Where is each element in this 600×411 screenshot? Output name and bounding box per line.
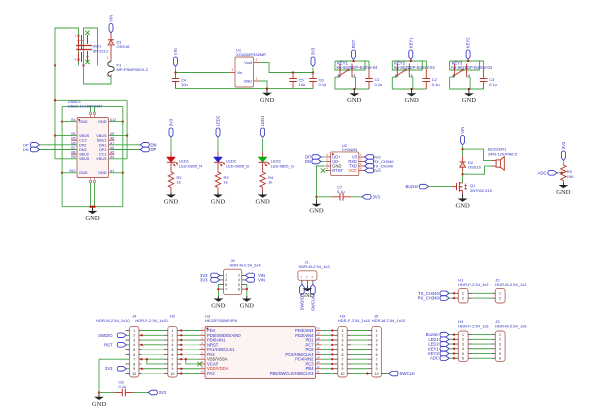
svg-text:7: 7 (342, 358, 344, 362)
pin 4 J4 (126, 344, 129, 346)
wire R2 to ground (170, 188, 172, 193)
capacitor C6 0.1u (312, 73, 314, 79)
wire pin B9 (55, 158, 77, 160)
svg-text:2: 2 (256, 58, 258, 62)
wire VBUS rail y100 (55, 99, 127, 101)
svg-text:VBUS: VBUS (96, 134, 107, 138)
pushbutton KEY2 K2-6629DP-B4SW-04 (396, 64, 398, 78)
svg-text:0.1u: 0.1u (489, 82, 497, 87)
junction dots H2 to U3 (180, 329, 182, 331)
pin 5 U2 left (325, 156, 331, 158)
svg-text:4: 4 (238, 278, 240, 282)
svg-text:HDR-M-2.54_2x4: HDR-M-2.54_2x4 (230, 263, 262, 268)
fuse F1 MP-PSMF050X-2 (108, 62, 114, 77)
junction row7 right a (185, 358, 187, 360)
svg-text:Vout: Vout (244, 61, 253, 65)
no-connect X on RTS# (321, 168, 325, 172)
pin 7 U3 (200, 358, 206, 360)
svg-text:GND: GND (404, 97, 419, 104)
svg-text:K2-6629DP-B4SW-04: K2-6629DP-B4SW-04 (337, 65, 379, 70)
junction C6 (312, 71, 314, 73)
junction buzzer top (461, 148, 463, 150)
svg-text:GND: GND (164, 199, 179, 206)
pin 8 J5 (368, 363, 372, 365)
wire H4 to J3 row 6 (472, 357, 491, 359)
svg-text:B1: B1 (71, 118, 75, 122)
pin 7 J5 (368, 358, 372, 360)
pin 8 H2 (164, 363, 168, 365)
svg-text:1: 1 (376, 329, 378, 333)
LED LED3 LED-0805_G (258, 157, 267, 162)
pin 4 U3 (200, 344, 206, 346)
pin 2 J5 (368, 334, 372, 336)
resistor R2 1k (168, 172, 173, 188)
pin 5 H4 (454, 352, 458, 354)
pin 6 H2 (164, 353, 168, 355)
header J2 HDR-M-2.54_1x2 (495, 288, 505, 303)
svg-text:1: 1 (462, 292, 464, 296)
pin 8 U2 right (359, 170, 365, 172)
svg-text:GND: GND (455, 203, 470, 210)
ground bottom left (98, 394, 100, 397)
diode D2 OSS16 (460, 161, 466, 163)
junction B1 (61, 120, 63, 122)
svg-text:A9: A9 (110, 132, 114, 136)
svg-text:VIN: VIN (173, 48, 178, 55)
port VIN J6 pin4 (245, 278, 254, 283)
junction dots U3 to H3 (331, 329, 333, 331)
wire top rail KEY2 (392, 60, 426, 62)
svg-text:1 2 3: 1 2 3 (75, 34, 81, 38)
svg-text:6: 6 (462, 357, 464, 361)
wire LED3 to R4 (262, 162, 264, 172)
MCU U3 HK32F030MF4P6 (205, 327, 316, 379)
svg-text:6: 6 (376, 353, 378, 357)
pin 9 H2 (164, 368, 168, 370)
pushbutton KEY1 K2-6629DP-B4SW-04 (339, 64, 341, 78)
pin 1 U1 (254, 80, 260, 82)
svg-text:HDR-M-2.54_1x3: HDR-M-2.54_1x3 (299, 264, 331, 269)
pin 3 U3 (200, 339, 206, 341)
svg-text:B9: B9 (71, 155, 75, 159)
capacitor C4 10u (175, 73, 177, 79)
svg-text:10: 10 (341, 372, 345, 376)
pin 3 J1 (312, 280, 314, 284)
svg-text:A7: A7 (110, 141, 114, 145)
svg-text:GND: GND (85, 215, 100, 222)
svg-text:5: 5 (376, 348, 378, 352)
wire bottom rail KEY3 (450, 77, 484, 89)
svg-text:4: 4 (342, 343, 344, 347)
wire H4 to J3 row 2 (472, 338, 491, 340)
svg-text:1k: 1k (224, 180, 228, 185)
pin 3 H4 (454, 343, 458, 345)
pin 6 H3 (334, 353, 338, 355)
wires H2 to U3 (181, 330, 199, 332)
pin 6 U3 (200, 353, 206, 355)
junction KEY1 top (352, 60, 354, 62)
pin 9 J4 (126, 368, 129, 370)
svg-text:B8: B8 (71, 151, 75, 155)
wire R5 to ground (562, 181, 564, 183)
junction J4 pin9 (141, 368, 143, 370)
capacitor C1 0.1u (368, 61, 370, 69)
pin 1 H4 (454, 334, 458, 336)
svg-text:1: 1 (499, 292, 501, 296)
svg-text:9: 9 (172, 367, 174, 371)
switch SW1 SP-2212 (78, 35, 80, 50)
svg-text:A6: A6 (110, 146, 114, 150)
svg-text:3: 3 (499, 342, 501, 346)
pin 3 U2 right (359, 165, 365, 167)
junction J6 right gnd (246, 288, 248, 290)
svg-text:0.1u: 0.1u (119, 384, 127, 389)
wire bottom rail y206.7 (62, 206, 123, 208)
wire R4 to ground (262, 188, 264, 193)
wire bottom rail U1 (176, 88, 314, 90)
svg-text:VBUS: VBUS (96, 157, 107, 161)
flag SWDIO at J1 (300, 284, 305, 294)
net flag KEY2 above KEY3 (466, 50, 470, 60)
svg-text:GND: GND (300, 292, 315, 299)
svg-text:8: 8 (172, 362, 174, 366)
wire switch to VBUS column (54, 66, 56, 159)
ground KEY2 (411, 89, 413, 93)
junction VBUS rail (54, 99, 56, 101)
capacitor C2 0.1u (425, 61, 427, 69)
svg-text:2: 2 (462, 338, 464, 342)
svg-text:GND: GND (255, 199, 270, 206)
pin 3 U1 (229, 72, 235, 74)
flag 3V3 at C7 (362, 195, 371, 200)
pin 7 H2 (164, 358, 168, 360)
junction C4 (174, 71, 176, 73)
svg-text:6: 6 (238, 283, 240, 287)
svg-text:4: 4 (172, 343, 174, 347)
svg-text:VCC: VCC (348, 168, 357, 173)
svg-text:1: 1 (256, 77, 258, 81)
flag 3V3 at C8 (148, 390, 157, 395)
svg-text:DP: DP (23, 143, 29, 147)
svg-text:A8: A8 (110, 137, 114, 141)
pin 2 H3 (334, 334, 338, 336)
junction A12 (122, 120, 124, 122)
svg-text:14: 14 (316, 355, 320, 359)
wire pin A7 DN (109, 144, 141, 146)
svg-text:5: 5 (225, 283, 227, 287)
svg-text:DN: DN (305, 159, 311, 164)
LED LED2 LED-0805_B (214, 157, 223, 162)
wire LED2 to R3 (217, 162, 219, 172)
svg-text:CC2: CC2 (79, 139, 87, 143)
pin 2 H4 (454, 338, 458, 340)
buzzer BUZZER1 SFN-1207PA6.5 (492, 160, 497, 162)
wire H4 to J3 row 5 (472, 352, 491, 354)
svg-text:2: 2 (133, 334, 135, 338)
pin 14 U3 (316, 358, 322, 360)
wire F1 to switch (84, 66, 112, 85)
svg-text:11: 11 (317, 370, 320, 374)
wire U2 GND down (317, 166, 325, 200)
wire KEY1 to KEY2 rail (410, 60, 412, 63)
flag RX_CH340 (365, 159, 374, 164)
pin 1 H1 (454, 292, 458, 294)
svg-text:KEY2: KEY2 (466, 37, 471, 48)
ground J1 (306, 286, 308, 288)
svg-text:6: 6 (327, 157, 329, 161)
wire SWCLK from J5 pin10 (381, 373, 385, 375)
svg-text:GND: GND (211, 199, 226, 206)
pin 5 J5 (368, 349, 372, 351)
junction J4 pin2 (141, 334, 143, 336)
port 3V3 J6 pin3 (211, 278, 220, 283)
svg-text:3: 3 (360, 162, 362, 166)
svg-text:HDR-F-2.54_1x10: HDR-F-2.54_1x10 (135, 318, 168, 323)
junction C8 node (98, 391, 100, 393)
svg-text:KEY1: KEY1 (408, 37, 413, 48)
pin 4 H2 (164, 344, 168, 346)
svg-text:10u: 10u (299, 82, 306, 87)
svg-text:LED-0805_R: LED-0805_R (179, 163, 202, 168)
svg-text:3: 3 (462, 342, 464, 346)
junction ADC (561, 172, 563, 174)
svg-text:8: 8 (238, 287, 240, 291)
svg-text:6: 6 (172, 353, 174, 357)
pin 2 H1 (454, 297, 458, 299)
pin 18 U3 (316, 339, 322, 341)
svg-text:3V3: 3V3 (105, 366, 113, 371)
wire J6 pins 6,8 to ground (245, 285, 246, 297)
svg-text:10: 10 (375, 372, 379, 376)
port DN left (30, 147, 39, 152)
pin 7 U2 right (359, 156, 365, 158)
svg-text:GND: GND (462, 97, 477, 104)
pin 2 J1 (306, 280, 308, 286)
ground J6 right (246, 296, 248, 299)
svg-text:VIN: VIN (258, 277, 265, 282)
wire VIN to U1 Vin (175, 68, 177, 73)
svg-text:12: 12 (316, 365, 320, 369)
junction row10 H3-J5 (366, 372, 368, 374)
svg-text:SFN-1207PA6.5: SFN-1207PA6.5 (488, 151, 518, 156)
pin 3 H2 (164, 339, 168, 341)
power flag 3V3 at R5 (561, 151, 565, 161)
svg-text:10: 10 (171, 372, 175, 376)
svg-text:3V3: 3V3 (200, 277, 208, 282)
svg-text:SP-2212: SP-2212 (93, 48, 109, 53)
resistor R4 1k (260, 172, 265, 188)
junction row7 a (140, 358, 142, 360)
header H2 HDR-F-2.54_1x10 (168, 326, 177, 377)
svg-text:1: 1 (327, 162, 329, 166)
pin 8 H3 (334, 363, 338, 365)
header H4 HDR-F-2.54_1x6 (458, 331, 468, 361)
header J3 HDR-M-2.54_1x6 (495, 331, 505, 361)
wire top rail KEY3 (450, 60, 484, 62)
svg-text:GND: GND (92, 401, 107, 408)
svg-text:5: 5 (342, 348, 344, 352)
svg-text:XC6206P332MR: XC6206P332MR (236, 52, 266, 57)
svg-text:LED1: LED1 (260, 115, 265, 126)
svg-text:4: 4 (133, 343, 135, 347)
svg-text:3: 3 (232, 68, 234, 72)
wire pin B8 stub (71, 153, 77, 155)
svg-text:H2: H2 (170, 314, 176, 319)
svg-text:3V3: 3V3 (159, 390, 167, 395)
svg-text:DN2: DN2 (79, 148, 87, 152)
wire VSS row to GND net (99, 358, 130, 360)
svg-text:2: 2 (499, 297, 501, 301)
pin 10 J5 (368, 373, 372, 375)
wire right GND drop (122, 107, 124, 207)
wire D1 to F1 (110, 45, 112, 62)
junction C7 (315, 196, 317, 198)
pin 3 H3 (334, 339, 338, 341)
svg-text:17: 17 (316, 341, 320, 345)
svg-text:0.1u: 0.1u (337, 189, 345, 194)
svg-text:1: 1 (107, 56, 109, 60)
net flag RST above KEY1 (352, 50, 356, 60)
junction J4 pin4 (141, 344, 143, 346)
svg-text:RST: RST (104, 342, 113, 347)
svg-text:4 5 6: 4 5 6 (75, 57, 81, 61)
ground LED2 (217, 192, 219, 194)
pin 1 U2 left (325, 165, 331, 167)
wire VIN down to Q1 (462, 146, 464, 156)
svg-text:HDR-F-2.54_1x2: HDR-F-2.54_1x2 (458, 282, 489, 287)
svg-text:7: 7 (360, 153, 362, 157)
wire U1 GND down (260, 81, 268, 89)
wire VIN to D1 (110, 33, 112, 40)
svg-text:10K: 10K (567, 174, 574, 179)
svg-text:8: 8 (133, 362, 135, 366)
svg-text:DP: DP (151, 147, 157, 152)
svg-text:2: 2 (499, 338, 501, 342)
wire H4 to J3 row 3 (472, 343, 491, 345)
svg-text:CC1: CC1 (99, 153, 107, 157)
pin 1 H2 (164, 330, 168, 332)
svg-text:SWDIO: SWDIO (98, 333, 113, 338)
svg-text:6: 6 (499, 357, 501, 361)
capacitor C8 0.1u (99, 392, 114, 394)
svg-text:4: 4 (376, 343, 378, 347)
pin 10 H2 (164, 373, 168, 375)
svg-text:10u: 10u (181, 82, 188, 87)
capacitor C5 10u (292, 73, 294, 79)
svg-text:B12: B12 (69, 169, 75, 173)
svg-text:RTS#: RTS# (332, 168, 343, 173)
no-connect X on SW1 pin (85, 60, 89, 64)
wire ADC to R5 (557, 172, 562, 174)
svg-text:1: 1 (462, 333, 464, 337)
net flag 3V3 above LED1 (169, 128, 173, 138)
svg-text:2N7002,215: 2N7002,215 (470, 188, 493, 193)
svg-text:SBU2: SBU2 (79, 153, 89, 157)
wire buzzer minus (463, 166, 492, 174)
svg-text:GND: GND (98, 120, 107, 124)
pushbutton KEY3 K2-6629DP-B4SW-04 (454, 64, 456, 78)
wire loop right of switch SW1 (84, 28, 98, 66)
svg-text:HDR-M-2.54_1x10: HDR-M-2.54_1x10 (372, 318, 406, 323)
svg-text:LED-0805_B: LED-0805_B (226, 163, 249, 168)
svg-text:3: 3 (342, 338, 344, 342)
flag 3V3 at U2 V3 (365, 155, 374, 160)
pin 17 U3 (316, 344, 322, 346)
svg-text:3: 3 (376, 338, 378, 342)
flag SWCLK (389, 371, 398, 376)
net flag LED1 above LED3 (261, 128, 265, 138)
header J6 HDR-M-2.54_2x4 (224, 269, 242, 294)
svg-text:A4: A4 (110, 155, 114, 159)
pin 1 J1 (301, 280, 303, 284)
pin 1 J5 (368, 330, 372, 332)
svg-text:ADC: ADC (430, 356, 439, 361)
port 3V3 J6 pin1 (211, 273, 220, 278)
pin 4 H4 (454, 348, 458, 350)
wire top rail KEY1 (335, 60, 369, 62)
junction KEY1 bottom (353, 88, 355, 90)
pin 4 U2 left (325, 170, 331, 172)
svg-text:MP-PSMF050X-2: MP-PSMF050X-2 (117, 67, 149, 72)
svg-text:LED-0805_G: LED-0805_G (271, 163, 294, 168)
svg-text:6: 6 (342, 353, 344, 357)
resistor R3 1k (215, 172, 220, 188)
svg-text:GND: GND (79, 171, 88, 175)
svg-text:2: 2 (238, 274, 240, 278)
svg-text:GND: GND (556, 189, 571, 196)
header J1 HDR-M-2.54_1x3 (298, 271, 317, 281)
capacitor C7 0.1u (317, 196, 333, 198)
junction A9 (126, 134, 128, 136)
wire pin A6 DP (109, 149, 141, 151)
wire H1 to J2 row 1 (472, 292, 491, 294)
svg-text:9: 9 (376, 367, 378, 371)
pin 5 H3 (334, 349, 338, 351)
wire LED1 to LED3 (262, 139, 264, 152)
power flag VIN top-left (109, 24, 113, 34)
svg-text:2: 2 (360, 157, 362, 161)
svg-text:8: 8 (342, 362, 344, 366)
pin 6 U2 left (325, 161, 331, 163)
pin 19 U3 (316, 334, 322, 336)
pin 3 J6 (220, 279, 224, 281)
junction KEY3 bottom (468, 88, 470, 90)
wire 3V3 to LED1 (170, 139, 172, 152)
svg-text:GND: GND (98, 171, 107, 175)
power flag 3V3 at U1 (311, 57, 315, 67)
pin 5 J6 (220, 284, 224, 286)
wire LED1 to R2 (170, 162, 172, 172)
pin 1 H3 (334, 330, 338, 332)
svg-text:7: 7 (225, 287, 227, 291)
pin 7 J6 (220, 288, 224, 290)
flag TX_CH340 (365, 164, 374, 169)
power flag VIN at U1 (174, 57, 178, 67)
pin 6 J4 (126, 353, 130, 355)
svg-text:1: 1 (172, 329, 174, 333)
svg-text:K2-6629DP-B4SW-04: K2-6629DP-B4SW-04 (394, 65, 436, 70)
wire J6 pins 5,7 to ground (218, 285, 219, 297)
svg-text:SWCLK: SWCLK (400, 371, 416, 376)
wire 3V3 to R5 (562, 162, 564, 166)
ground U1 (266, 89, 268, 93)
svg-text:4: 4 (499, 347, 501, 351)
ground USB (92, 207, 94, 211)
svg-text:B5: B5 (71, 137, 75, 141)
svg-text:DN: DN (23, 148, 29, 152)
svg-text:8: 8 (376, 362, 378, 366)
pin 10 J4 (126, 373, 130, 375)
